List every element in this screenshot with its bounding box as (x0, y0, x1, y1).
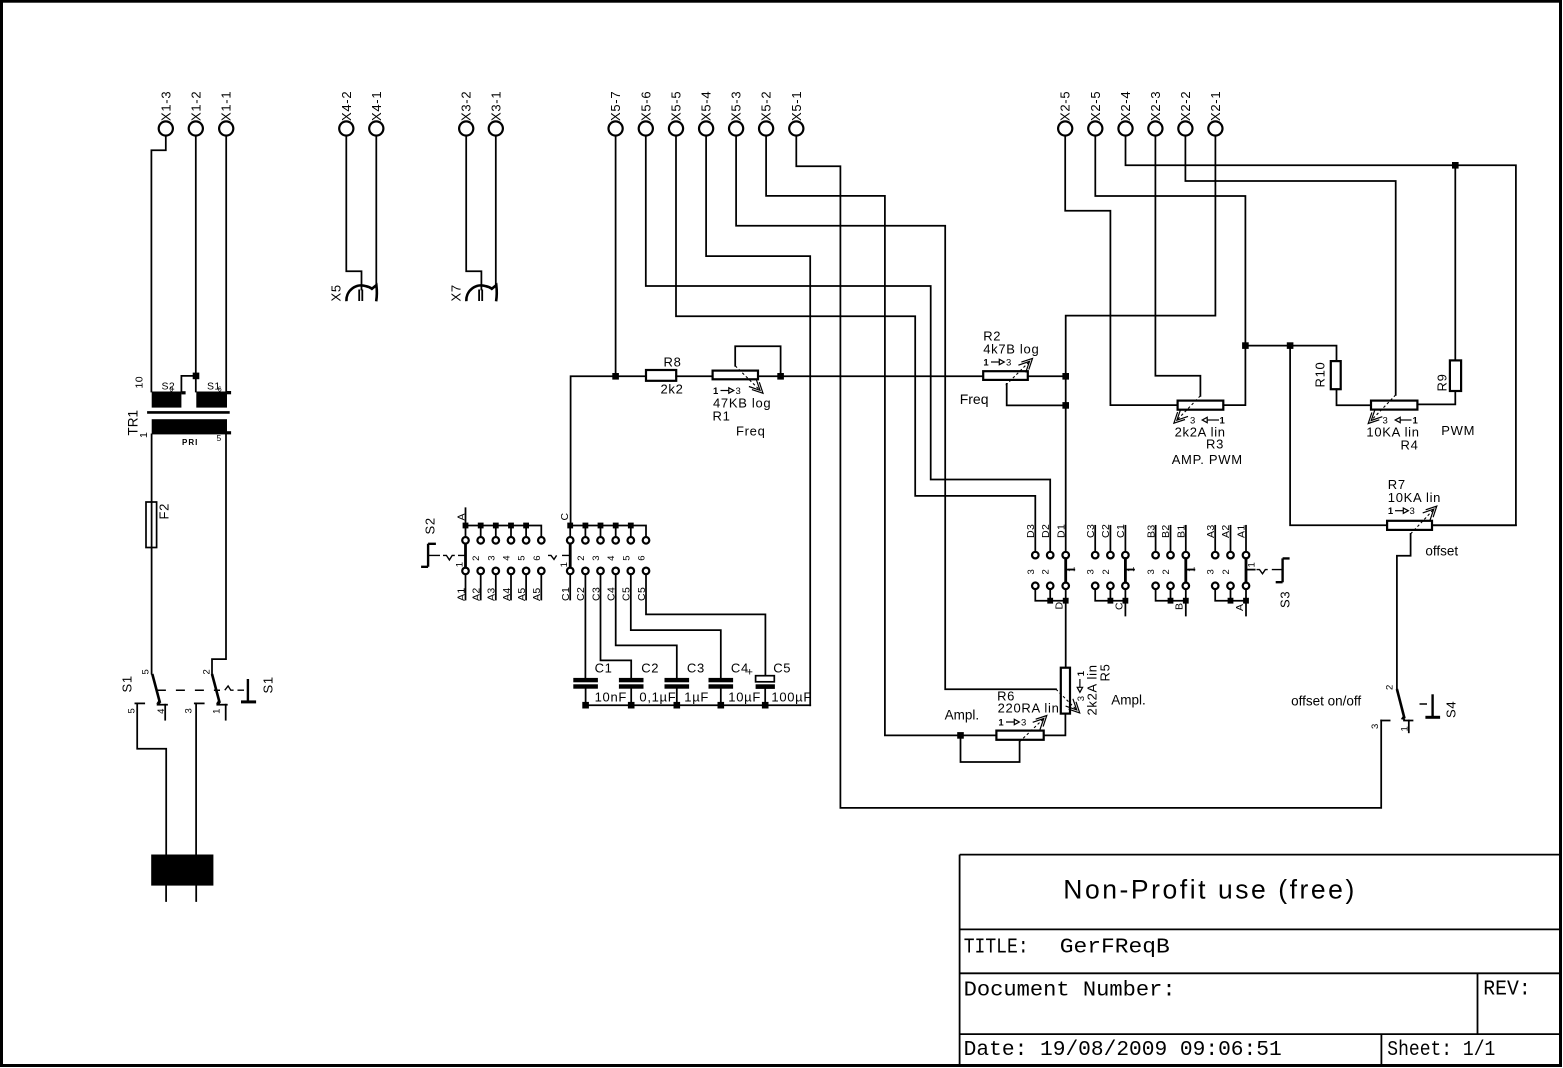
svg-text:X4-1: X4-1 (369, 91, 384, 121)
S2 link C (548, 555, 570, 559)
capacitor C4 (709, 661, 762, 705)
svg-text:4: 4 (502, 556, 513, 561)
connector X3-1 (488, 91, 503, 136)
svg-text:A: A (455, 513, 467, 520)
svg-text:R9: R9 (1434, 373, 1449, 391)
svg-text:B2: B2 (1160, 524, 1172, 538)
svg-text:A5: A5 (516, 587, 528, 601)
junction (463, 523, 469, 529)
svg-text:6: 6 (637, 556, 648, 561)
junction (567, 523, 573, 529)
wire X2-6 to R3 pin 1 (1065, 136, 1177, 405)
wire C5 bottom (764, 689, 766, 705)
junction (493, 523, 499, 529)
svg-text:X4-2: X4-2 (339, 91, 354, 121)
svg-text:2k2: 2k2 (661, 381, 684, 396)
wiper tick (1186, 569, 1195, 571)
pole B throw contact 3 (195, 702, 204, 704)
svg-text:5: 5 (127, 708, 138, 713)
svg-text:X2-2: X2-2 (1178, 91, 1193, 121)
connector X1-1 (219, 91, 234, 136)
wire R6 wiper loop (961, 735, 1020, 762)
connector X4-2 (339, 91, 354, 136)
S2 lever (421, 544, 436, 567)
junction (613, 523, 619, 529)
junction (582, 702, 589, 709)
mechanical link (157, 689, 220, 691)
wire C1 bottom (585, 689, 587, 706)
rotary switch S2 (421, 508, 649, 601)
junction (1108, 598, 1114, 604)
svg-text:1µF: 1µF (684, 690, 709, 705)
junction (762, 702, 769, 709)
wire S2 pos5 to C4 (631, 574, 721, 678)
S2 section C wiper position 1 (569, 544, 572, 567)
wire S2 pos2 to C1 (584, 574, 586, 678)
wire X5-6 to S3 contact D2 (646, 136, 1050, 552)
svg-text:R5: R5 (1098, 663, 1113, 681)
wire R1 wiper loop (735, 346, 780, 376)
svg-text:1: 1 (1399, 726, 1410, 731)
svg-text:Ampl.: Ampl. (945, 708, 980, 723)
section B common bus (net B) (1156, 589, 1186, 615)
svg-text:1: 1 (1388, 506, 1394, 517)
svg-text:X5-6: X5-6 (638, 91, 653, 121)
resistor R10 (1313, 361, 1341, 389)
junction (583, 523, 589, 529)
capacitor C1 (573, 661, 627, 705)
section D contacts (1032, 552, 1069, 589)
fuse F2 (146, 502, 172, 548)
wire S3 net D to R5 (1065, 601, 1067, 668)
wire TR1 pin 5 to S1 pole B (212, 434, 226, 673)
junction (777, 373, 784, 380)
connector X2-2 (1178, 91, 1193, 136)
winding S2 (152, 392, 182, 408)
net stub A2 (480, 574, 482, 599)
svg-text:3: 3 (1006, 358, 1011, 369)
svg-text:Freq: Freq (960, 391, 989, 407)
svg-text:PWM: PWM (1441, 423, 1475, 438)
wire X5-2 to R6 pin 1 (766, 136, 996, 736)
junction (1452, 162, 1459, 169)
S2 mechanical link (429, 555, 466, 560)
contact 1 (1404, 720, 1413, 722)
net stub B3 (1155, 526, 1157, 552)
wire S1 contact 3 to terminal block (195, 703, 197, 854)
connector X5-6 (638, 91, 653, 136)
svg-text:2: 2 (1041, 569, 1052, 574)
svg-text:Non-Profit use (free): Non-Profit use (free) (1063, 875, 1354, 905)
svg-text:1: 1 (559, 562, 570, 567)
wire R3 pin 3 to node (1223, 346, 1245, 406)
svg-text:9: 9 (170, 387, 174, 394)
svg-text:5: 5 (621, 556, 632, 561)
svg-text:S4: S4 (1443, 701, 1458, 718)
wire C3 bottom (676, 689, 678, 706)
wire X1-2 to TR1 center tap (181, 136, 196, 392)
wire R1 to R2 (758, 375, 983, 377)
svg-text:C5: C5 (773, 661, 791, 676)
svg-text:C1: C1 (595, 661, 613, 676)
junction (1047, 598, 1053, 604)
junction (718, 702, 725, 709)
svg-text:2: 2 (202, 669, 213, 674)
rotary switch S3 section B (1145, 524, 1197, 615)
svg-text:X2-5: X2-5 (1088, 91, 1103, 121)
svg-text:+: + (747, 667, 753, 679)
wire R9 to R4 pin 3 (1417, 391, 1455, 404)
connector X5-3 (729, 91, 744, 136)
svg-text:3: 3 (1206, 569, 1217, 574)
svg-text:A5: A5 (531, 587, 543, 601)
svg-text:10µF: 10µF (728, 690, 761, 705)
svg-text:X3-1: X3-1 (488, 91, 503, 121)
terminal block (151, 855, 213, 886)
switch S1 (120, 669, 276, 719)
svg-text:2: 2 (576, 556, 587, 561)
svg-text:6: 6 (532, 556, 543, 561)
svg-text:3: 3 (1146, 569, 1157, 574)
wire S2 pos4 to C3 (616, 574, 677, 678)
svg-text:4: 4 (156, 709, 167, 714)
net stub A5 (540, 574, 542, 599)
svg-text:2: 2 (471, 556, 482, 561)
svg-text:Document Number:: Document Number: (964, 980, 1176, 1003)
junction (193, 373, 200, 380)
svg-text:S3: S3 (1277, 591, 1292, 608)
junction (612, 373, 619, 380)
svg-text:D3: D3 (1025, 524, 1037, 538)
core (147, 411, 230, 414)
potentiometer R3 (1172, 396, 1243, 467)
wire R10 to R4 pin 1 (1337, 389, 1372, 405)
wire C4 bottom (720, 689, 722, 706)
svg-text:A4: A4 (501, 587, 513, 601)
junction (508, 523, 514, 529)
svg-text:3: 3 (1086, 569, 1097, 574)
svg-text:X5-2: X5-2 (759, 91, 774, 121)
svg-text:TR1: TR1 (125, 410, 140, 436)
section B wiper (1184, 559, 1187, 583)
wiper tick (1066, 569, 1075, 571)
net stub C1 (1124, 526, 1126, 552)
jack X7 (448, 284, 496, 301)
svg-text:X3-2: X3-2 (459, 91, 474, 121)
net stub A3 (1214, 526, 1216, 552)
pole A lever (152, 674, 160, 703)
wire R8 to R1 (676, 375, 712, 377)
svg-text:X5-1: X5-1 (789, 91, 804, 121)
S2 section C contacts (567, 537, 649, 574)
svg-text:Freq: Freq (736, 424, 766, 439)
section A common bus (net A) (1215, 589, 1246, 615)
svg-text:100µF: 100µF (771, 690, 812, 705)
S2 section A bus (net A) (466, 508, 542, 537)
section C common bus (net C) (1095, 589, 1125, 615)
net stub A1 (465, 574, 467, 599)
section B contacts (1152, 552, 1189, 589)
net stub A3 (495, 574, 497, 599)
svg-text:C3: C3 (687, 661, 705, 676)
wire X1-1 to TR1 pin 6 (225, 136, 227, 391)
junction (1062, 402, 1069, 409)
wire TR1 pin 1 to F2 (151, 434, 153, 502)
potentiometer R2 (960, 329, 1040, 408)
wire X2-3 to R3 wiper (1155, 136, 1200, 396)
svg-text:Date: 19/08/2009 09:06:51: Date: 19/08/2009 09:06:51 (964, 1039, 1282, 1062)
contact 3 (1381, 720, 1389, 722)
svg-text:F2: F2 (157, 503, 172, 520)
title block (960, 855, 1560, 1064)
svg-text:PRI: PRI (182, 438, 198, 447)
svg-text:5: 5 (517, 556, 528, 561)
connector X1-3 (158, 91, 173, 136)
net stub B2 (1170, 526, 1172, 552)
wire R5 to R6 pin 3 (1044, 714, 1066, 736)
svg-text:offset: offset (1425, 544, 1458, 559)
net stub C2 (1109, 526, 1111, 552)
svg-text:X2-4: X2-4 (1118, 91, 1133, 121)
wire X2-4 node to R9 (1454, 165, 1456, 360)
junction (1062, 373, 1069, 380)
svg-text:0,1µF: 0,1µF (639, 690, 676, 705)
wire R7 wiper to S4 pin 2 (1397, 534, 1411, 689)
actuator (1431, 694, 1433, 717)
svg-text:B: B (1174, 603, 1186, 610)
svg-text:1: 1 (983, 358, 989, 369)
junction (1183, 598, 1189, 604)
svg-text:A1: A1 (455, 587, 467, 601)
svg-text:X2-3: X2-3 (1148, 91, 1163, 121)
capacitor C5 (polarized) (747, 661, 813, 705)
wire main node to S2 common C (571, 376, 646, 525)
svg-text:R10: R10 (1313, 362, 1328, 388)
svg-text:A3: A3 (486, 587, 498, 601)
section C wiper (1124, 559, 1127, 583)
capacitor C2 (619, 661, 677, 705)
potentiometer R1 (713, 366, 772, 439)
connector X2-3 (1148, 91, 1163, 136)
wire node to R7 pin 1 (1290, 346, 1387, 526)
svg-text:2: 2 (1384, 685, 1395, 690)
junction (674, 702, 681, 709)
svg-text:3: 3 (1370, 724, 1381, 729)
wire X5-4 to capacitor bus (706, 136, 810, 705)
wire X5-5 to S3 contact D3 (676, 136, 1035, 552)
svg-text:2: 2 (1221, 569, 1232, 574)
pole A throw contact 5 (135, 702, 144, 704)
svg-text:X1-3: X1-3 (158, 91, 173, 121)
wire X5-1 to S4 pin 3 (796, 136, 1381, 808)
svg-text:S1: S1 (120, 675, 135, 692)
svg-text:3: 3 (1026, 569, 1037, 574)
wire X2-5 to node R3/R10 (1095, 136, 1245, 346)
wire X5-7 to node Freq (615, 136, 617, 376)
connector X2-4 (1118, 91, 1133, 136)
svg-text:3: 3 (1021, 718, 1026, 729)
svg-text:A2: A2 (1220, 524, 1232, 538)
winding S1 (196, 392, 227, 408)
wire F2 to S1 pole A (151, 548, 153, 674)
svg-text:X5-5: X5-5 (669, 91, 684, 121)
svg-text:S2: S2 (422, 517, 437, 534)
S3 mechanical link (1257, 570, 1283, 574)
connector X1-2 (188, 91, 203, 136)
connector X3-2 (459, 91, 474, 136)
svg-text:2: 2 (1161, 569, 1172, 574)
svg-text:C2: C2 (1100, 524, 1112, 538)
svg-text:D2: D2 (1040, 524, 1052, 538)
rotary switch S3 section A (1205, 524, 1258, 615)
jack X5 (329, 284, 377, 301)
svg-text:X2-5: X2-5 (1058, 91, 1073, 121)
svg-text:X5: X5 (329, 284, 344, 301)
wire X2-2 to R4 wiper (1185, 136, 1395, 395)
svg-text:220RA lin: 220RA lin (998, 701, 1060, 716)
net stub A1 (1245, 526, 1247, 552)
connector X5-7 (608, 91, 623, 136)
svg-text:10nF: 10nF (595, 690, 627, 705)
svg-text:6: 6 (218, 387, 222, 394)
junction (1242, 342, 1249, 349)
junction (1123, 598, 1129, 604)
junction (628, 523, 634, 529)
svg-text:S1: S1 (260, 676, 275, 693)
connector X2-5 (second) (1058, 91, 1073, 136)
wire node to R10 (1245, 346, 1336, 362)
svg-text:R8: R8 (664, 355, 682, 370)
capacitor ground bus (586, 704, 811, 706)
wire X5-3 to R5 wiper (736, 136, 1056, 689)
svg-text:C: C (559, 513, 571, 521)
svg-text:X5-3: X5-3 (729, 91, 744, 121)
net stub A4 (510, 574, 512, 599)
svg-text:R4: R4 (1401, 438, 1419, 453)
potentiometer R7 (1387, 477, 1458, 559)
svg-text:X7: X7 (448, 284, 463, 301)
wire X4-1 to jack X5 tip (375, 136, 377, 285)
svg-text:3: 3 (184, 708, 195, 713)
rotary switch S3 section C (1085, 524, 1137, 616)
svg-text:5: 5 (141, 669, 152, 674)
capacitor C3 (665, 661, 710, 705)
svg-text:B3: B3 (1145, 524, 1157, 538)
wiper tick (1246, 569, 1255, 571)
transformer TR1 (125, 376, 231, 447)
svg-text:3: 3 (486, 556, 497, 561)
svg-text:1: 1 (1247, 562, 1258, 567)
connector X5-4 (699, 91, 714, 136)
svg-text:4: 4 (606, 556, 617, 561)
svg-text:Sheet: 1/1: Sheet: 1/1 (1387, 1039, 1495, 1062)
svg-text:A3: A3 (1205, 524, 1217, 538)
connector X5-2 (759, 91, 774, 136)
S2 section A contacts (462, 537, 544, 574)
svg-text:2: 2 (1101, 569, 1112, 574)
svg-text:B1: B1 (1176, 524, 1188, 538)
svg-text:A: A (1234, 604, 1246, 611)
pole B throw contact 1 (217, 704, 227, 706)
potentiometer R6 (945, 689, 1060, 742)
connector X5-1 (789, 91, 804, 136)
svg-text:A2: A2 (471, 587, 483, 601)
svg-text:C1: C1 (560, 587, 572, 601)
connector X4-1 (369, 91, 384, 136)
resistor R9 (1434, 360, 1461, 391)
wire R7 right to X2-4 riser (1432, 524, 1516, 526)
svg-text:AMP. PWM: AMP. PWM (1172, 452, 1243, 467)
connector X2-1 (1208, 91, 1223, 136)
terminal block stubs (166, 886, 196, 901)
wiper tick (1125, 569, 1134, 571)
junction (523, 523, 529, 529)
svg-text:1: 1 (998, 718, 1004, 729)
wire R2 to node D1 (1028, 375, 1066, 377)
net stub A5 (525, 574, 527, 599)
connector X5-5 (669, 91, 684, 136)
winding PRI (152, 419, 227, 434)
section D wiper (1064, 559, 1067, 583)
section A contacts (1212, 552, 1249, 589)
wire R2 wiper to node D1 (1007, 384, 1066, 406)
S2 section C bus (net C) (570, 526, 646, 538)
junction (598, 523, 604, 529)
wire X4-2 to jack X5 sleeve (346, 136, 361, 290)
potentiometer R5 (1056, 663, 1146, 715)
svg-text:X5-7: X5-7 (608, 91, 623, 121)
section C contacts (1092, 552, 1129, 589)
connector X2-5 (1088, 91, 1103, 136)
wire S1 contact 5 to terminal block (137, 703, 166, 854)
wire S2 pos3 to C2 (601, 574, 632, 678)
svg-text:1: 1 (455, 562, 466, 567)
net stub B1 (1185, 526, 1187, 552)
svg-text:TITLE:: TITLE: (964, 937, 1029, 960)
svg-text:C1: C1 (1115, 524, 1127, 538)
svg-text:D1: D1 (1055, 524, 1067, 538)
net stub C1 (569, 574, 571, 599)
svg-text:X2-1: X2-1 (1208, 91, 1223, 121)
svg-text:1: 1 (138, 432, 150, 438)
net stub C3 (1094, 526, 1096, 552)
svg-text:X1-2: X1-2 (188, 91, 203, 121)
resistor R8 (646, 355, 684, 397)
wire X3-2 to jack X7 sleeve (466, 136, 481, 290)
S4 lever (1397, 689, 1405, 719)
net stub A2 (1230, 526, 1232, 552)
S2 section A wiper position 1 (464, 544, 467, 567)
svg-text:R3: R3 (1206, 437, 1224, 452)
pole B lever (212, 674, 220, 703)
svg-text:offset on/off: offset on/off (1291, 694, 1361, 709)
svg-text:X5-4: X5-4 (699, 91, 714, 121)
mechanical link (1420, 703, 1428, 705)
svg-text:C3: C3 (1085, 524, 1097, 538)
S3 lever (1276, 558, 1290, 582)
potentiometer R4 (1366, 395, 1475, 453)
svg-text:4k7B log: 4k7B log (983, 342, 1039, 357)
junction (1063, 598, 1069, 604)
wire S2 pos6 to C5 (646, 574, 765, 675)
junction (957, 732, 964, 739)
svg-text:GerFReqB: GerFReqB (1060, 937, 1170, 960)
svg-text:10: 10 (133, 376, 145, 388)
junction (1228, 598, 1234, 604)
junction (628, 702, 635, 709)
svg-text:3: 3 (1410, 506, 1415, 517)
svg-text:3: 3 (591, 556, 602, 561)
